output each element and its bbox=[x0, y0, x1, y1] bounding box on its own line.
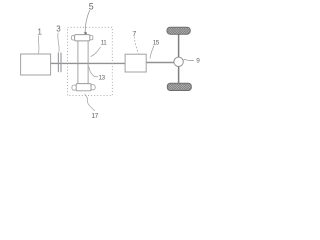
arrowhead of leader 5 bbox=[84, 32, 87, 36]
top wheel bbox=[167, 27, 190, 34]
bottom roller left trunnion bbox=[72, 85, 77, 90]
leader 3 bbox=[58, 33, 59, 53]
svg-text:11: 11 bbox=[101, 40, 108, 47]
dashed box 5 (friction drive unit) bbox=[68, 27, 113, 95]
vertical shaft column 11 bbox=[77, 41, 79, 84]
bottom wheel bbox=[167, 83, 191, 90]
svg-text:17: 17 bbox=[91, 113, 98, 120]
main shaft right segment bbox=[146, 62, 174, 64]
main shaft left segment bbox=[51, 62, 125, 64]
svg-text:9: 9 bbox=[196, 57, 200, 64]
box 1 (drive source) bbox=[21, 54, 51, 75]
svg-text:7: 7 bbox=[132, 29, 136, 38]
leader 11 bbox=[91, 47, 101, 57]
bottom roller body bbox=[76, 84, 91, 91]
svg-text:13: 13 bbox=[98, 75, 105, 82]
coupling 3 bbox=[57, 53, 59, 73]
leader 17 bbox=[85, 94, 95, 111]
leader 7 (dashed) bbox=[134, 37, 138, 54]
bottom roller right trunnion bbox=[91, 85, 96, 90]
svg-text:3: 3 bbox=[56, 25, 61, 34]
leader 15 bbox=[150, 46, 154, 59]
box 7 (transmission) bbox=[125, 54, 146, 72]
svg-text:5: 5 bbox=[89, 1, 94, 11]
svg-text:1: 1 bbox=[38, 27, 42, 36]
top roller left trunnion bbox=[72, 36, 76, 40]
differential circle 9 bbox=[174, 57, 183, 66]
axle upper segment bbox=[178, 34, 180, 57]
top roller body bbox=[75, 35, 90, 41]
top roller right trunnion bbox=[89, 36, 93, 40]
leader 13 bbox=[89, 67, 98, 77]
leader 1 bbox=[37, 36, 40, 54]
leader 5 bbox=[85, 10, 90, 32]
axle lower segment bbox=[178, 66, 180, 83]
leader 9 (tilde) bbox=[184, 59, 194, 60]
